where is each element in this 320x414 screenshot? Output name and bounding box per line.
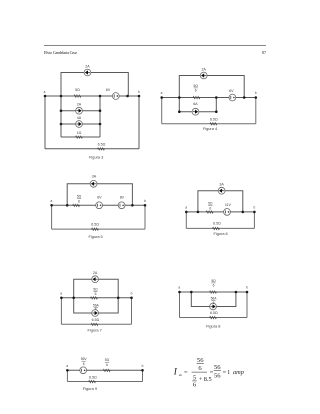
wire fig7 inner lower branch	[74, 298, 119, 313]
junction fig7 left on main	[72, 297, 75, 300]
svg-text:6: 6	[78, 199, 80, 203]
junction fig3 branch2 left	[60, 123, 63, 126]
voltage source 11V fig6	[224, 209, 231, 216]
svg-text:2A: 2A	[77, 103, 82, 107]
wire fig8 main a-b	[180, 291, 248, 293]
svg-text:6V: 6V	[229, 89, 234, 93]
node a fig7	[60, 297, 63, 300]
node a fig9	[66, 369, 69, 372]
svg-text:amp: amp	[233, 369, 244, 376]
resistor 6.5 ohm fig4 bottom	[210, 123, 217, 125]
current source 56/6 A fig7 lower branch	[92, 310, 99, 317]
wire fig4 right vertical (b down)	[255, 98, 257, 124]
resistor 5/6 ohm fig4	[193, 97, 200, 99]
wire fig3 bottom loop	[45, 148, 139, 150]
junction fig8 left on main	[190, 291, 193, 294]
wire fig3 inner box right vertical	[99, 96, 101, 137]
junction fig7 right on main	[117, 297, 120, 300]
svg-text:5Ω: 5Ω	[105, 358, 110, 362]
svg-text:5Ω: 5Ω	[211, 279, 216, 283]
svg-text:6: 6	[209, 206, 211, 210]
wire fig3 inner box bottom	[61, 136, 100, 138]
wire fig3 top branch	[61, 73, 128, 97]
svg-text:a: a	[66, 364, 68, 368]
svg-text:6: 6	[195, 89, 197, 93]
node a fig6	[185, 211, 188, 214]
svg-text:b: b	[138, 90, 140, 94]
wire fig4 top branch	[179, 76, 244, 98]
svg-text:2A: 2A	[85, 65, 90, 69]
svg-text:2A: 2A	[201, 68, 206, 72]
junction fig3 branch2 right	[99, 123, 102, 126]
current source 2A fig4 top	[200, 72, 207, 79]
wire fig3 inner branch 1	[61, 110, 100, 112]
wire fig9 left vertical (a down)	[66, 370, 68, 381]
junction fig3 branch1 right	[99, 109, 102, 112]
wire fig4 inner 6A branch left vertical	[178, 98, 180, 112]
node b fig3	[138, 95, 141, 98]
svg-text:56: 56	[214, 373, 221, 380]
svg-text:a: a	[60, 292, 62, 296]
wire fig4 main a-b	[162, 97, 256, 99]
svg-text:b: b	[131, 292, 133, 296]
wire fig5 bottom loop	[52, 228, 145, 230]
junction fig6 top-left on main	[197, 211, 200, 214]
junction fig6 top-right on main	[242, 211, 245, 214]
svg-text:Figura 6: Figura 6	[213, 231, 227, 236]
svg-text:6.5Ω: 6.5Ω	[213, 222, 221, 226]
svg-text:3A: 3A	[92, 175, 97, 179]
svg-text:6: 6	[213, 301, 215, 305]
svg-text:6.5Ω: 6.5Ω	[92, 318, 100, 322]
wire fig9 main a-b	[67, 369, 142, 371]
svg-text:5Ω: 5Ω	[75, 88, 80, 92]
junction fig3 inner right top	[99, 95, 102, 98]
svg-text:ab: ab	[179, 373, 183, 377]
svg-text:I: I	[173, 368, 178, 378]
node a fig5	[50, 204, 53, 207]
voltage source 6V fig3	[112, 93, 119, 100]
svg-text:b: b	[246, 286, 248, 290]
svg-text:5Ω: 5Ω	[77, 195, 82, 199]
resistor 6.5 ohm fig6 bottom	[213, 227, 220, 229]
junction fig3 branch1 left	[60, 109, 63, 112]
wire fig6 left vertical (a down)	[185, 212, 187, 229]
junction fig4 top-left on main	[178, 96, 181, 99]
voltage source 6V fig5	[96, 202, 103, 209]
voltage source 6V fig4	[229, 94, 236, 101]
resistor 6.5 ohm fig8 bottom	[210, 317, 217, 319]
svg-text:=: =	[184, 369, 188, 376]
node a fig4	[160, 96, 163, 99]
wire fig3 left vertical (a to bottom loop)	[44, 96, 46, 149]
node a fig8	[178, 291, 181, 294]
wire fig5 main a-b	[52, 204, 145, 206]
svg-text:a: a	[178, 286, 180, 290]
resistor 5/6 ohm fig5	[73, 204, 80, 206]
svg-text:6: 6	[106, 363, 108, 367]
svg-text:6.5Ω: 6.5Ω	[210, 117, 218, 121]
svg-text:+ 8.5: + 8.5	[199, 376, 212, 383]
resistor 6.5 ohm fig9 bottom	[89, 381, 96, 383]
wire fig4 inner 6A branch right vertical	[215, 98, 217, 112]
current source 2A fig3 branch1	[76, 107, 83, 114]
wire fig4 bottom loop	[162, 123, 256, 125]
wire fig8 inner lower branch	[191, 292, 236, 307]
svg-text:6: 6	[213, 284, 215, 288]
resistor 5/6 ohm fig8 on main	[210, 291, 217, 293]
node b fig9	[141, 369, 144, 372]
wire fig5 left vertical (a down)	[51, 205, 53, 229]
wire fig3 inner branch 2	[61, 123, 100, 125]
junction fig5 top-left on main	[66, 204, 69, 207]
node a fig3	[44, 95, 47, 98]
svg-text:b: b	[254, 206, 256, 210]
junction fig8 right on main	[235, 291, 238, 294]
svg-text:6: 6	[95, 292, 97, 296]
wire fig6 right vertical (b down)	[253, 212, 255, 229]
svg-text:87: 87	[262, 50, 266, 55]
wire fig3 inner box left vertical	[60, 96, 62, 137]
svg-text:1: 1	[227, 369, 230, 376]
svg-text:a: a	[185, 206, 187, 210]
svg-text:5Ω: 5Ω	[93, 287, 98, 291]
resistor 5/6 ohm fig7	[91, 297, 98, 299]
svg-text:8V: 8V	[120, 196, 125, 200]
svg-text:b: b	[142, 364, 144, 368]
current source 4A fig3 branch2	[76, 121, 83, 128]
svg-text:b: b	[144, 199, 146, 203]
svg-text:56: 56	[214, 364, 221, 371]
svg-text:Figura 9: Figura 9	[83, 386, 97, 391]
wire fig8 left vertical (a down)	[179, 292, 181, 318]
wire fig4 inner 6A branch horizontal	[179, 111, 216, 113]
node b fig6	[253, 211, 256, 214]
svg-text:6.5Ω: 6.5Ω	[91, 223, 99, 227]
current source 3A fig6 top	[218, 187, 225, 194]
svg-text:5: 5	[193, 374, 197, 381]
svg-text:2A: 2A	[93, 271, 98, 275]
wire fig6 bottom loop	[186, 227, 254, 229]
junction fig3 top-left	[60, 95, 63, 98]
svg-text:56A: 56A	[211, 296, 218, 300]
resistor 1 ohm fig3	[76, 136, 83, 138]
svg-text:1Ω: 1Ω	[77, 131, 82, 135]
svg-text:a: a	[44, 90, 46, 94]
wire fig8 right vertical (b down)	[246, 292, 248, 318]
svg-text:Figura 7: Figura 7	[88, 327, 102, 332]
svg-text:6: 6	[83, 362, 85, 366]
svg-text:6: 6	[95, 307, 97, 311]
svg-text:=: =	[223, 369, 227, 376]
node b fig7	[130, 297, 133, 300]
junction fig3 right of source	[126, 95, 129, 98]
current source 2A fig3 top	[84, 69, 91, 76]
junction fig4 6A branch right	[215, 110, 218, 113]
svg-text:6V: 6V	[97, 196, 102, 200]
svg-text:6A: 6A	[193, 102, 198, 106]
svg-text:5Ω: 5Ω	[208, 202, 213, 206]
wire fig7 bottom loop	[61, 323, 131, 325]
voltage source 56/6 V fig9	[80, 367, 87, 374]
svg-text:5Ω: 5Ω	[194, 84, 199, 88]
junction fig4 top-right on main	[243, 96, 246, 99]
svg-text:6: 6	[193, 381, 197, 388]
svg-text:4A: 4A	[77, 116, 82, 120]
svg-text:6.5Ω: 6.5Ω	[210, 311, 218, 315]
wire fig5 right vertical (b down)	[144, 205, 146, 229]
wire fig9 right vertical (b down)	[142, 370, 144, 381]
junction fig4 6A branch left	[178, 110, 181, 113]
resistor 5/6 ohm fig9	[103, 369, 110, 371]
wire fig6 top branch	[198, 191, 243, 212]
resistor 5/6 ohm fig6	[206, 211, 213, 213]
node b fig4	[255, 96, 258, 99]
junction fig4 right vertical on main	[215, 96, 218, 99]
svg-text:6.5Ω: 6.5Ω	[89, 375, 97, 379]
resistor 6.5 ohm fig3 bottom	[98, 148, 105, 150]
svg-text:6V: 6V	[106, 88, 111, 92]
resistor 6.5 ohm fig5 bottom	[92, 228, 99, 230]
svg-text:Figura 5: Figura 5	[88, 234, 102, 239]
voltage source 8V fig5	[118, 202, 125, 209]
svg-text:6.5Ω: 6.5Ω	[98, 142, 106, 146]
svg-text:a: a	[51, 199, 53, 203]
svg-text:a: a	[161, 91, 163, 95]
svg-text:3A: 3A	[219, 182, 224, 186]
wire fig8 bottom loop	[180, 317, 248, 319]
wire fig3 main a-b	[45, 95, 139, 97]
resistor 6.5 ohm fig7 bottom	[91, 323, 98, 325]
wire fig3 right vertical (b to bottom loop)	[138, 96, 140, 149]
svg-text:Figura 3: Figura 3	[89, 155, 103, 160]
svg-text:Figura 8: Figura 8	[206, 323, 220, 328]
svg-text:Figura 4: Figura 4	[203, 126, 218, 131]
current source 3A fig5 top	[90, 180, 97, 187]
svg-text:b: b	[255, 91, 257, 95]
equation main fraction bar	[192, 371, 207, 373]
wire fig5 top branch	[67, 184, 132, 206]
header rule	[44, 45, 266, 47]
svg-text:11V: 11V	[225, 203, 232, 207]
wire fig7 right vertical (b down)	[131, 298, 133, 325]
svg-text:6: 6	[198, 365, 202, 372]
wire fig6 main a-b	[186, 211, 254, 213]
node b fig5	[144, 204, 147, 207]
svg-text:56V: 56V	[81, 357, 88, 361]
resistor 5 ohm fig3	[74, 95, 81, 97]
node b fig8	[246, 291, 249, 294]
wire fig7 left vertical (a down)	[60, 298, 62, 325]
svg-text:Elvio Candelaria Cruz: Elvio Candelaria Cruz	[44, 50, 77, 55]
current source 56/6 A fig8 lower branch	[210, 303, 217, 310]
wire fig7 top branch	[74, 279, 119, 298]
current source 2A fig7 top	[92, 276, 99, 283]
svg-text:56: 56	[197, 357, 204, 364]
junction fig5 top-right on main	[131, 204, 134, 207]
wire fig9 bottom loop	[67, 381, 142, 383]
current source 6A fig4	[192, 108, 199, 115]
wire fig7 main a-b	[61, 297, 131, 299]
wire fig4 left vertical (a down)	[161, 98, 163, 124]
